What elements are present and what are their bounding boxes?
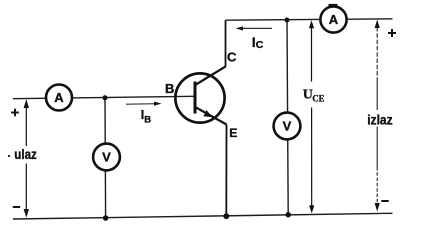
svg-text:E: E xyxy=(229,126,237,140)
svg-text:B: B xyxy=(144,114,151,125)
svg-text:izlaz: izlaz xyxy=(367,112,393,128)
svg-text:CE: CE xyxy=(312,95,324,105)
svg-text:A: A xyxy=(329,12,339,27)
svg-text:U: U xyxy=(303,88,313,103)
svg-text:V: V xyxy=(283,119,292,134)
svg-text:ulaz: ulaz xyxy=(14,146,37,162)
svg-text:C: C xyxy=(256,39,264,51)
svg-text:V: V xyxy=(102,150,111,165)
svg-text:C: C xyxy=(227,50,237,65)
svg-text:B: B xyxy=(165,81,174,96)
svg-text:A: A xyxy=(54,90,64,105)
